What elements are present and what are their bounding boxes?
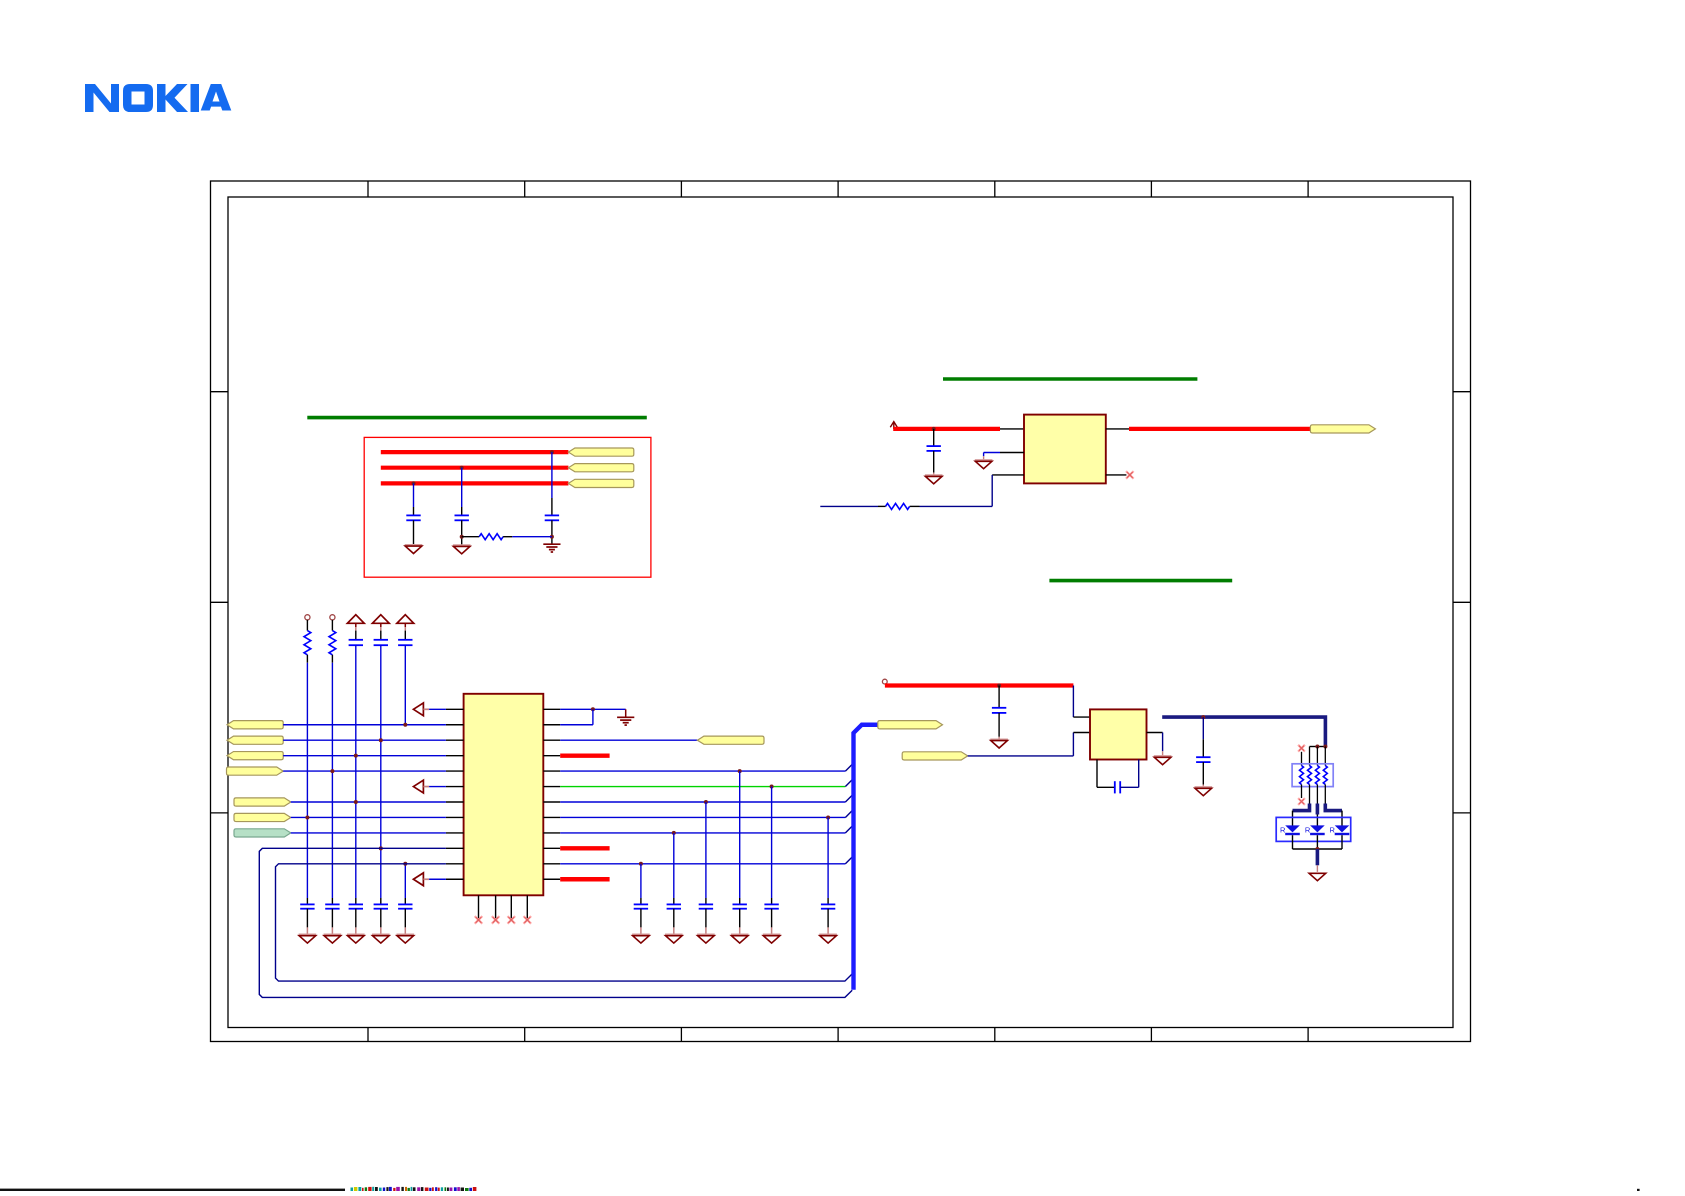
wire C4 up — [933, 429, 935, 446]
border frame — [211, 181, 1471, 1042]
ground C7 — [1195, 787, 1213, 796]
net flag IN-D — [227, 767, 284, 775]
wire out1-out2 link — [560, 709, 593, 724]
net flag BUS — [878, 721, 943, 729]
net flag IN-G (mint) — [234, 829, 291, 837]
LED driver U3 — [1090, 709, 1147, 759]
wire col3 — [355, 645, 357, 904]
wire U2 pin2 gnd — [984, 453, 1000, 460]
LED array box — [1276, 817, 1351, 841]
title underline 3 (green) — [1049, 579, 1232, 583]
junction col5 b — [403, 862, 407, 866]
wire U1 out12 (red) — [560, 877, 609, 881]
capacitor Cr6 — [821, 904, 835, 908]
wire Cr5 down — [771, 909, 773, 935]
wire R1 right — [503, 536, 552, 538]
wire loop2 — [276, 864, 853, 981]
wire C3 down — [551, 520, 553, 544]
test point TP1 — [305, 615, 310, 631]
svg-text:R: R — [1305, 826, 1311, 835]
wire U2 out stub — [1106, 428, 1129, 430]
stem col3 — [355, 623, 357, 640]
regulator U2 — [1024, 415, 1106, 484]
power arrow VIN — [890, 422, 897, 429]
wire col C — [551, 452, 553, 515]
wire colR6 — [827, 817, 829, 904]
junction C3 node — [550, 535, 554, 539]
off-page arrow A1 — [413, 703, 429, 716]
junction col3 b — [354, 800, 358, 804]
net flag VBAT3 — [568, 479, 633, 487]
net flag IN-A — [227, 721, 283, 729]
wire U1 out11 — [560, 863, 845, 865]
junction on rail 3 — [412, 481, 416, 485]
capacitor Cb2 — [325, 904, 339, 908]
wire colR4 — [739, 771, 741, 904]
U1 bottom pin 2 — [495, 895, 497, 919]
capacitor Cb3 — [349, 904, 363, 908]
wire VBAT rail 3 — [381, 481, 569, 485]
junction col5 a — [403, 723, 407, 727]
wire U3 cx left — [1097, 760, 1115, 788]
capacitor Cr2 — [667, 904, 681, 908]
wire colR2 — [673, 833, 675, 905]
capacitor Cr5 — [764, 904, 778, 908]
junction VIN-C4 — [932, 427, 936, 431]
wire Cr1 down — [640, 909, 642, 935]
net flag IN-C — [227, 752, 283, 760]
ground LED — [1309, 873, 1326, 880]
junction LED common — [1315, 847, 1319, 851]
bus entry out8 — [845, 811, 852, 818]
wire VLED (red) — [885, 683, 1074, 687]
wire Cr2 down — [673, 909, 675, 935]
no-connect X respack top — [1298, 745, 1305, 752]
wire U2 pin3 route — [910, 475, 993, 507]
net flag OUT-3 — [697, 736, 764, 744]
junction respack b — [1323, 745, 1327, 749]
wire Cr4 down — [739, 909, 741, 935]
LED V3 — [1330, 825, 1350, 834]
wire IN-D — [283, 770, 446, 772]
U1 bottom pin 1 — [478, 895, 480, 919]
wire LED2 feed (thick) — [1316, 804, 1320, 815]
wire C2 down — [461, 520, 463, 545]
bus entry out9 — [845, 826, 852, 833]
wire colR3 — [705, 802, 707, 904]
wire col2 — [331, 655, 333, 905]
ground Cr2 — [665, 935, 683, 944]
net flag IN-F — [234, 813, 291, 821]
ground Cb5 — [397, 935, 415, 944]
net flag VBAT2 — [568, 464, 633, 472]
wire VLED to U3 — [1073, 686, 1090, 718]
svg-text:R: R — [1280, 826, 1286, 835]
ground Cr5 — [763, 935, 781, 944]
ground C3 (earth) — [543, 544, 560, 552]
wire Cb4 down — [380, 909, 382, 935]
wire U1 out5 — [560, 770, 845, 772]
no-connect X bottom 2 — [492, 916, 500, 924]
bus entry out7 — [845, 795, 852, 802]
wire A2 — [429, 786, 446, 788]
wire rp col3 — [1316, 747, 1318, 766]
ground U2 pin2 — [975, 460, 993, 469]
wire Cr3 down — [705, 909, 707, 935]
resistor pack RP1 box — [1292, 764, 1333, 787]
wire EN to U3 — [968, 733, 1090, 756]
junction on rail 1 — [550, 450, 554, 454]
wire rp col1 — [1301, 752, 1303, 766]
wire Cb1 down — [306, 909, 308, 935]
no-connect X bottom 1 — [475, 916, 483, 924]
footer dot — [1637, 1189, 1640, 1191]
junction on rail 2 — [460, 466, 464, 470]
wire U2 nc stub — [1106, 474, 1127, 476]
resistor RP1-4 — [1323, 766, 1327, 785]
wire U1 out6 (green) — [560, 786, 845, 788]
wire U2 pin2 stub — [1000, 452, 1024, 454]
capacitor C2 — [455, 515, 469, 520]
wire Cb3 down — [355, 909, 357, 935]
net flag VBAT1 — [568, 448, 633, 456]
wire U1 out4 (red) — [560, 753, 609, 757]
wire IN-C — [283, 755, 446, 757]
junction out11 — [639, 862, 643, 866]
ground Cb3 — [347, 935, 365, 944]
U1 left pin stubs — [446, 709, 464, 879]
wire U1 out9 — [560, 832, 845, 834]
junction col4 b — [379, 846, 383, 850]
wire LED3 feed (thick) — [1325, 804, 1342, 811]
capacitor Cr1 — [634, 904, 648, 908]
main IC U1 — [464, 694, 544, 896]
capacitor C-col4 — [374, 640, 388, 645]
net flag IN-B — [227, 736, 283, 744]
net flag IN-E — [234, 798, 291, 806]
junction respack a — [1315, 745, 1319, 749]
wire col4 — [380, 645, 382, 904]
section outline box (red) — [364, 437, 651, 577]
wire U1 out7 — [560, 801, 845, 803]
capacitor C1 — [406, 515, 420, 520]
no-connect X U2 — [1126, 471, 1134, 479]
wire IN-A — [283, 724, 446, 726]
wire V3 cathode — [1341, 835, 1343, 849]
junction VLED-C5 — [997, 684, 1001, 688]
title underline 2 (green) — [943, 377, 1197, 381]
wire Cb5 down — [404, 909, 406, 935]
wire U1 out8 — [560, 816, 845, 818]
wire VIN (red) — [893, 427, 1000, 431]
footer text fragment — [351, 1187, 477, 1193]
capacitor Cb1 — [300, 904, 314, 908]
svg-text:R: R — [1330, 826, 1336, 835]
wire C1 to gnd — [413, 520, 415, 544]
ground C1 — [405, 545, 423, 554]
ground Cb4 — [372, 935, 390, 944]
wire rp col2 down — [1309, 785, 1311, 805]
wire LED2 stub — [1316, 815, 1318, 826]
resistor R1 — [479, 534, 503, 540]
ground Cr3 — [697, 935, 715, 944]
wire col B — [461, 468, 463, 516]
junction col2 — [330, 769, 334, 773]
U1 bottom pin 3 — [510, 895, 512, 919]
wire U1 out10 (red) — [560, 846, 609, 850]
ground Cb1 — [299, 935, 317, 944]
ground Cb2 — [324, 935, 342, 944]
wire U2 pin3 stub — [992, 474, 1024, 476]
no-connect X respack bottom — [1298, 798, 1305, 805]
wire Cb2 down — [331, 909, 333, 935]
ground Cr1 — [632, 935, 650, 944]
ground Cr6 — [819, 935, 837, 944]
bus entry out6 — [845, 780, 852, 787]
capacitor C6 — [1115, 781, 1120, 793]
wire V2 cathode — [1316, 835, 1318, 849]
power arrow col5 — [397, 615, 414, 624]
bus entry out11 — [845, 857, 852, 864]
wire col A — [413, 483, 415, 515]
ground C2 — [453, 545, 471, 554]
capacitor C7 — [1196, 757, 1210, 762]
net flag VOUT — [1310, 425, 1375, 433]
junction col4 a — [379, 738, 383, 742]
power arrow col4 — [372, 615, 389, 624]
footer rule — [0, 1189, 345, 1191]
ground U3 — [1154, 756, 1172, 765]
net flag EN — [902, 752, 968, 760]
wire colR1 — [640, 864, 642, 905]
wire LED supply (thick) — [1162, 717, 1325, 746]
junction out8 — [826, 815, 830, 819]
wire rp col3 down — [1316, 785, 1318, 805]
Nokia logo — [85, 84, 231, 112]
wire C7 down — [1202, 762, 1204, 787]
wire V1 cathode — [1292, 835, 1294, 849]
bus entry out5 — [845, 764, 852, 771]
wire IN-E — [291, 801, 446, 803]
resistor R3 — [304, 631, 311, 655]
capacitor Cr3 — [699, 904, 713, 908]
wire A1 — [429, 708, 446, 710]
wire rp col1 down — [1301, 785, 1303, 799]
wire VBAT rail 1 — [381, 450, 569, 454]
wire C5 up — [998, 686, 1000, 708]
wire Cr6 down — [827, 909, 829, 935]
wire R1 left — [462, 536, 480, 538]
wire loop1 — [259, 848, 852, 997]
wire col5 upper — [404, 645, 406, 725]
junction out6 — [770, 785, 774, 789]
ground out1 (earth) — [617, 709, 634, 725]
resistor RP1-3 — [1315, 766, 1319, 785]
wire col1 — [306, 655, 308, 905]
wire rp col2 — [1309, 747, 1311, 766]
U1 bottom pin 4 — [526, 895, 528, 919]
junction col1 — [305, 815, 309, 819]
wire U1 out3 — [560, 739, 697, 741]
wire U1 out1 — [560, 708, 626, 710]
junction out1 — [591, 707, 595, 711]
wire VOUT (red) — [1129, 427, 1310, 431]
ground Cr4 — [731, 935, 749, 944]
wire C5 down — [998, 713, 1000, 739]
ground C5 — [990, 739, 1008, 748]
capacitor C4 — [927, 446, 941, 451]
wire col5 lower — [404, 864, 406, 905]
wire C4 down — [933, 451, 935, 475]
wire rp col4 down — [1324, 785, 1326, 805]
LED V2 — [1305, 825, 1325, 834]
wire rp col4 — [1324, 747, 1326, 766]
wire IN-G — [291, 832, 446, 834]
capacitor Cb4 — [374, 904, 388, 908]
junction LED supply — [1201, 715, 1205, 719]
wire LED gnd (thick) — [1316, 849, 1320, 865]
wire U3 cx right — [1120, 760, 1139, 788]
junction out7 — [704, 800, 708, 804]
off-page arrow A2 — [413, 780, 429, 793]
wire IN-B — [283, 739, 446, 741]
wire R2 left — [820, 505, 885, 507]
LED V1 — [1280, 825, 1300, 834]
bus (thick blue) — [854, 725, 878, 990]
U1 right pin stubs — [543, 709, 560, 879]
resistor RP1-1 — [1300, 766, 1304, 785]
wire LED gnd stem — [1316, 865, 1318, 872]
wire VBAT rail 2 — [381, 466, 569, 470]
capacitor C3 — [545, 515, 559, 520]
junction col3 a — [354, 754, 358, 758]
power circle VLED — [882, 679, 887, 684]
junction C2 node — [460, 535, 464, 539]
wire VIN stub — [1000, 428, 1024, 430]
capacitor C-col5 — [398, 640, 412, 645]
junction out5 — [738, 769, 742, 773]
no-connect X bottom 4 — [524, 916, 532, 924]
wire LED1 feed (thick) — [1293, 804, 1310, 811]
wire respack top — [1310, 746, 1326, 748]
junction out9 — [672, 831, 676, 835]
wire U3 gnd pin — [1147, 733, 1163, 756]
ground C4 — [925, 475, 943, 484]
wire LED common — [1293, 848, 1343, 850]
capacitor C5 — [992, 708, 1006, 713]
resistor R2 — [886, 503, 910, 509]
wire colR5 — [771, 787, 773, 905]
wire LED3 stub — [1341, 811, 1343, 826]
wire LED1 stub — [1292, 811, 1294, 826]
no-connect X bottom 3 — [508, 916, 516, 924]
stem col4 — [380, 623, 382, 640]
capacitor Cr4 — [733, 904, 747, 908]
wire C7 up — [1202, 717, 1204, 757]
resistor R4 — [329, 631, 336, 655]
capacitor C-col3 — [349, 640, 363, 645]
capacitor Cb5 — [398, 904, 412, 908]
title underline (green) — [307, 416, 647, 420]
wire A3 — [429, 878, 446, 880]
wire IN-F — [291, 816, 446, 818]
test point TP2 — [330, 615, 335, 631]
off-page arrow A3 — [413, 873, 429, 886]
power arrow col3 — [347, 615, 364, 624]
resistor RP1-2 — [1308, 766, 1312, 785]
stem col5 — [404, 623, 406, 640]
